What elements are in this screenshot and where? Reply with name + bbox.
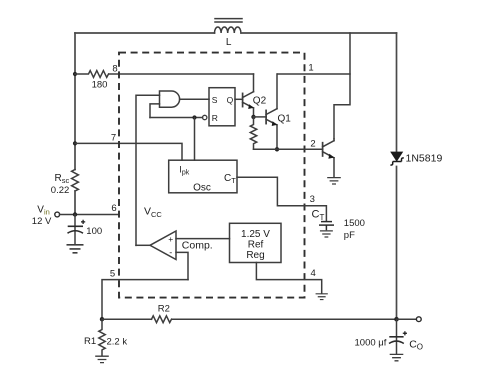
wire comparator output up to AND input [136,244,150,246]
AND gate U1a [160,91,180,107]
svg-text:R: R [212,113,218,123]
svg-text:Osc: Osc [193,182,211,193]
svg-text:Q2: Q2 [253,95,267,106]
svg-text:S: S [212,95,218,105]
wire Q1 base from junction [254,116,267,118]
wire right vertical rail lower (diode cathode to output node) [396,167,398,320]
wire R input line [150,117,203,119]
svg-text:5: 5 [110,268,115,279]
wire pin 6 line (Vin terminal to VCC pin) [60,214,119,216]
latch U1b (S R Q) [209,88,235,126]
svg-text:Q1: Q1 [278,113,292,124]
svg-text:180: 180 [92,79,108,90]
svg-text:pF: pF [344,230,355,241]
capacitor CT 1500 pF [319,222,334,231]
node junction output [394,317,399,322]
wire top rail right (inductor to right rail / switch node) [241,32,396,34]
block 1.25 V Ref Reg [230,223,282,262]
ground input capacitor [67,245,84,253]
wire R line junction down to Ipk block [194,118,196,161]
inductor L [215,19,243,33]
comparator U1c [150,231,176,260]
ground pin 4 [316,294,328,300]
svg-text:+: + [168,234,173,244]
svg-text:2.2 k: 2.2 k [107,337,128,348]
terminal Vin input [55,212,60,217]
wire right vertical rail upper (switch node to diode anode) [396,33,398,152]
wire pin 7 line (Ipk sense) [75,143,182,160]
svg-text:100: 100 [86,226,102,237]
svg-text:12 V: 12 V [32,216,52,227]
capacitor Co 1000 uF output [389,319,407,353]
node junction Vin [73,212,77,216]
wire switch-node drop (top rail to pin 1 line and external transistor) [334,33,350,139]
resistor 180 [75,71,109,78]
node junction at pin 7 tap [73,141,77,145]
svg-text:Comp.: Comp. [182,239,213,251]
resistor Rsc 0.22 [72,170,79,192]
wire pin 2 line (switch emitter to external base) [254,148,323,150]
resistor R1 2.2 k [99,319,105,355]
ground R1 [95,356,109,362]
diode 1N5819 [390,152,403,165]
wire pin 3 line (Osc CT out to timing cap) [237,177,326,221]
svg-text:1500: 1500 [344,218,365,229]
svg-text:1N5819: 1N5819 [406,153,443,165]
wire comparator - input to pin 5 [176,252,188,279]
terminal output [416,317,421,322]
wire node to R2 [102,318,152,320]
svg-text:1000 μf: 1000 μf [355,337,387,348]
svg-text:1.25 V: 1.25 V [241,229,270,240]
svg-text:3: 3 [310,194,315,205]
wire pin 8 line (180 ohm to Q2 collector) [109,73,254,75]
svg-text:1: 1 [308,63,313,74]
transistor external NPN switch [323,139,335,177]
capacitor 100 uF input [68,215,86,245]
svg-text:Ref: Ref [248,240,264,251]
wire output node to terminal [397,318,417,320]
wire pin 1 line (Q1 collector to switch rail) [278,73,351,75]
resistor Q2 emitter (internal) [250,117,256,149]
wire top rail left (Vin to inductor) [75,32,215,34]
wire AND top input from comparator output [136,95,160,245]
wire left vertical rail lower (Rsc to Vin node) [74,191,76,215]
svg-text:Q: Q [227,95,234,105]
wire pin 5 line (feedback input) [102,280,188,320]
svg-text:7: 7 [111,132,116,143]
wire left vertical rail upper (top rail to Rsc) [74,33,76,170]
wire comparator + input to reference [176,238,230,240]
transistor Q1 [266,74,277,149]
node junction Q1 emitter on pin 2 line [275,147,279,151]
svg-text:0.22: 0.22 [51,185,70,196]
svg-text:6: 6 [111,203,116,214]
ground external transistor emitter [327,178,341,184]
svg-text:8: 8 [112,63,117,74]
svg-text:2: 2 [310,138,315,149]
wire latch Q output to Q2 base [235,98,243,100]
resistor R2 [152,316,172,323]
R input inversion bubble [203,115,207,119]
wire pin 4 line (reference to ground) [256,263,321,293]
node junction at 180 ohm tap [73,72,77,76]
transistor Q2 [243,74,254,117]
svg-text:4: 4 [311,268,316,279]
svg-text:R1: R1 [84,336,96,347]
wire AND output to latch S [180,98,209,100]
svg-text:Reg: Reg [246,250,264,261]
svg-text:R2: R2 [158,303,170,314]
ground timing capacitor [320,231,333,237]
svg-text:L: L [226,37,232,48]
node junction feedback divider [100,317,104,321]
svg-text:-: - [169,248,172,258]
wire AND bottom input from R line [150,104,160,118]
wire R2 to output node [172,318,397,320]
node junction R line to Ipk [192,115,196,119]
ground output capacitor [390,354,404,360]
node junction Q2 emitter / Q1 base [251,115,255,119]
IC dashed boundary MC34063 [119,53,305,298]
block Ipk / Osc [169,160,237,193]
